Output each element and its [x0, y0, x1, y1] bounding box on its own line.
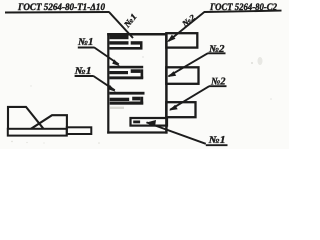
weld macrosection: ramp block	[31, 115, 67, 129]
column plate outline	[107, 33, 109, 134]
leader from top-left label to weld 1	[109, 12, 133, 38]
leader to right plate 3	[170, 86, 209, 110]
left gusset plate 3 (weld N1)	[110, 92, 145, 95]
rotated node label N1	[121, 11, 139, 30]
left gusset plate 1 (weld N1)	[110, 35, 129, 39]
weld macrosection: base strip left	[8, 129, 67, 136]
leader from top-right label to weld 2	[169, 12, 205, 41]
leader to left plate 2	[94, 48, 119, 65]
paper background	[0, 0, 289, 149]
leader to left plate 3	[93, 76, 114, 90]
arrowhead of top-right leader	[167, 35, 176, 43]
weld macrosection: left block with bevel	[8, 107, 44, 130]
bottom tab plate (weld N1)	[131, 118, 168, 126]
leader from bottom tab to bottom label	[147, 122, 206, 143]
underline of top-right label	[204, 11, 282, 12]
rotated node label N2	[179, 13, 197, 30]
weld macrosection: base strip right	[67, 127, 92, 134]
faint scan speck	[258, 57, 263, 65]
wire bottom edge of column	[107, 131, 167, 133]
ghost line below left plate 3	[110, 107, 124, 109]
right plate 2 (weld N2)	[166, 67, 198, 84]
right plate 3 (weld N2)	[166, 102, 195, 117]
scan specks	[11, 141, 12, 142]
wire top edge of column	[107, 33, 167, 36]
left gusset plate 2 (weld N1)	[110, 66, 144, 69]
right plate 1 (weld N2)	[166, 33, 197, 47]
leader to right plate 2	[169, 53, 208, 76]
wire right edge of column	[165, 33, 168, 134]
underline of top-left label	[5, 11, 110, 14]
